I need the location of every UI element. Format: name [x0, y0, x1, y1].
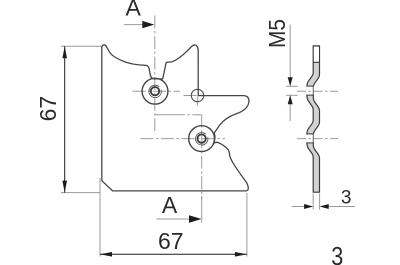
svg-text:67: 67	[158, 228, 184, 254]
svg-text:A: A	[126, 0, 142, 20]
svg-text:A: A	[162, 192, 178, 218]
svg-text:3: 3	[341, 188, 352, 209]
svg-text:67: 67	[35, 96, 61, 122]
svg-text:M5: M5	[264, 19, 290, 48]
svg-text:3: 3	[331, 241, 343, 265]
